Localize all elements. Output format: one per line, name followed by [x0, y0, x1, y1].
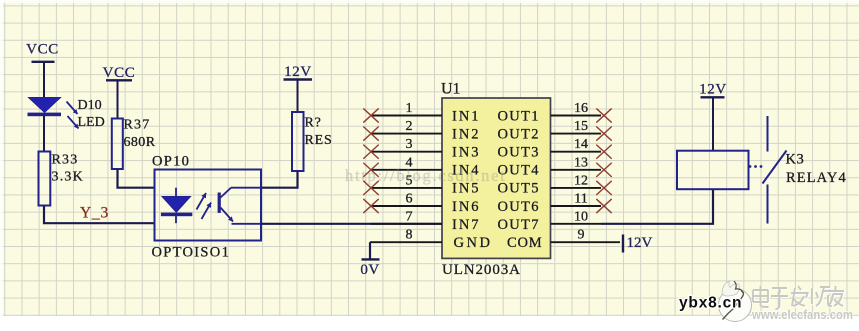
LED D10 — [28, 98, 62, 117]
ground port 0V at pin 8 — [360, 242, 379, 278]
svg-text:2: 2 — [406, 119, 413, 134]
optocoupler photon arrows — [197, 193, 212, 219]
X mark pin 12 — [597, 181, 612, 194]
power port 12V at pin 9 (COM) — [623, 235, 653, 253]
pin 13 (OUT4) wire — [551, 169, 602, 171]
svg-text:IN1: IN1 — [452, 108, 481, 124]
svg-text:16: 16 — [574, 101, 588, 116]
svg-text:12V: 12V — [627, 235, 653, 251]
svg-text:OUT2: OUT2 — [498, 126, 540, 142]
pin 6 (IN6) wire — [371, 205, 442, 207]
svg-text:VCC: VCC — [103, 65, 136, 81]
svg-text:ybx8.cn: ybx8.cn — [679, 295, 742, 312]
wire R37 to optocoupler anode — [118, 169, 156, 188]
svg-text:OUT1: OUT1 — [498, 108, 540, 124]
svg-text:OP10: OP10 — [152, 154, 190, 170]
pin 4 (IN4) wire — [371, 169, 442, 171]
svg-text:8: 8 — [406, 228, 413, 243]
X mark pin 2 — [364, 127, 379, 140]
svg-text:GND: GND — [454, 235, 493, 251]
svg-text:R?: R? — [305, 116, 322, 131]
optocoupler phototransistor — [218, 188, 261, 224]
svg-text:13: 13 — [574, 155, 588, 170]
svg-text:U1: U1 — [441, 81, 461, 98]
X mark pin 5 — [364, 181, 379, 194]
svg-text:14: 14 — [574, 137, 588, 152]
pin 3 (IN3) wire — [371, 151, 442, 153]
pin 10 (OUT7) wire — [551, 223, 602, 225]
svg-text:9: 9 — [578, 228, 585, 243]
X mark pin 14 — [597, 145, 612, 158]
wire OUT7 pin 10 to relay coil — [601, 189, 713, 224]
pin 16 (OUT1) wire — [551, 115, 602, 117]
relay K3 contact — [763, 116, 787, 224]
LED D10 emission arrows — [67, 102, 79, 129]
X mark pin 13 — [597, 163, 612, 176]
svg-text:D10: D10 — [78, 98, 102, 113]
svg-text:IN3: IN3 — [452, 145, 481, 161]
svg-text:12V: 12V — [699, 82, 727, 98]
svg-text:IN6: IN6 — [452, 199, 481, 215]
power port VCC (net VCC, left column) — [26, 42, 59, 62]
X mark pin 16 — [597, 109, 612, 122]
svg-text:OUT6: OUT6 — [498, 199, 540, 215]
svg-text:3.3K: 3.3K — [52, 170, 84, 185]
svg-text:12: 12 — [574, 173, 588, 188]
X mark pin 3 — [364, 145, 379, 158]
svg-text:ULN2003A: ULN2003A — [442, 262, 521, 278]
wire VCC to D10 anode — [43, 62, 45, 98]
wire optocoupler emitter to U1 pin 7 — [261, 223, 442, 225]
svg-text:0V: 0V — [360, 262, 379, 278]
svg-text:RES: RES — [305, 133, 333, 148]
svg-text:OUT3: OUT3 — [498, 145, 540, 161]
svg-text:12V: 12V — [284, 64, 312, 80]
relay K3 coil — [677, 151, 749, 190]
svg-text:680R: 680R — [124, 135, 156, 150]
resistor R37 — [112, 119, 123, 170]
svg-text:LED: LED — [78, 115, 105, 130]
power port 12V (relay) — [699, 82, 727, 98]
svg-text:OUT7: OUT7 — [498, 217, 540, 233]
svg-text:6: 6 — [406, 192, 413, 207]
wire 12V to R? — [297, 80, 299, 113]
svg-text:RELAY4: RELAY4 — [786, 170, 847, 186]
power port 12V (resistor column) — [284, 64, 313, 80]
svg-text:www.elecfans.com: www.elecfans.com — [751, 308, 853, 322]
X mark pin 6 — [364, 199, 379, 212]
pin 11 (OUT6) wire — [551, 205, 602, 207]
X mark pin 1 — [364, 109, 379, 122]
pin 8 (GND) wire — [370, 241, 442, 243]
svg-text:3: 3 — [406, 137, 413, 152]
pin 7 (IN7) wire — [371, 223, 442, 225]
pin 1 (IN1) wire — [371, 115, 442, 117]
svg-text:1: 1 — [406, 101, 413, 116]
X mark pin 4 — [364, 163, 379, 176]
watermark white ball logo — [719, 281, 752, 322]
IC U1 body — [442, 98, 551, 258]
X mark pin 11 — [597, 199, 612, 212]
X mark pin 15 — [597, 127, 612, 140]
wire 12V to relay coil — [712, 97, 714, 151]
relay linkage dots — [749, 165, 763, 168]
svg-text:VCC: VCC — [26, 42, 59, 58]
op-amp U? optocoupler OP10 box — [155, 170, 262, 241]
wire VCC to R37 — [117, 80, 119, 119]
svg-text:OPTOISO1: OPTOISO1 — [152, 245, 231, 261]
wire R? to optocoupler collector — [261, 171, 298, 188]
optocoupler internal LED — [161, 188, 192, 224]
svg-text:7: 7 — [406, 210, 413, 225]
pin 2 (IN2) wire — [371, 133, 442, 135]
resistor R? — [292, 112, 304, 171]
pin 9 (COM) wire — [551, 241, 621, 243]
svg-text:10: 10 — [574, 210, 588, 225]
svg-text:IN2: IN2 — [452, 126, 481, 142]
wire D10 cathode to R33 — [43, 116, 45, 152]
svg-text:K3: K3 — [786, 152, 805, 168]
pin 15 (OUT2) wire — [551, 133, 602, 135]
svg-text:IN7: IN7 — [452, 217, 481, 233]
svg-text:11: 11 — [574, 192, 587, 207]
watermark chinese logo glyphs — [754, 287, 845, 310]
svg-text:COM: COM — [507, 235, 542, 251]
svg-text:15: 15 — [574, 119, 588, 134]
resistor R33 — [39, 152, 51, 206]
svg-text:http://blog.csdn.net: http://blog.csdn.net — [345, 166, 506, 185]
power port VCC (second column) — [103, 65, 136, 81]
wire R33 to net Y_3 (to optocoupler cathode) — [44, 206, 155, 224]
svg-text:R33: R33 — [52, 153, 79, 168]
pin 14 (OUT3) wire — [551, 151, 602, 153]
pin 5 (IN5) wire — [371, 187, 442, 189]
svg-text:Y_3: Y_3 — [80, 205, 109, 222]
pin 12 (OUT5) wire — [551, 187, 602, 189]
svg-text:R37: R37 — [124, 118, 151, 133]
